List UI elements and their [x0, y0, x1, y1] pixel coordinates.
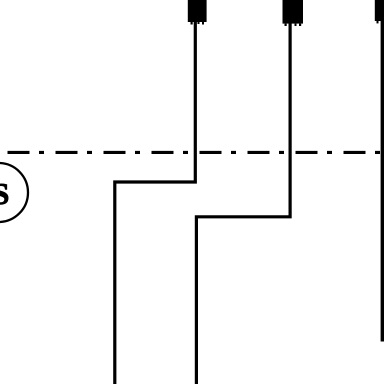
centerline (dash-dot axis)	[8, 151, 384, 154]
wire W1 (from terminal T1, steps left)	[115, 20, 196, 384]
terminal T3 (cut off at right edge)	[375, 0, 384, 23]
switch S1 circle (cut off at left edge)	[0, 163, 28, 222]
wire W2 (from terminal T2, steps left)	[196, 20, 290, 384]
terminal T1	[188, 0, 207, 25]
terminal T2	[283, 0, 304, 26]
svg-text:S: S	[0, 177, 9, 211]
switch S1 label "S"	[0, 177, 9, 211]
wire W3 (from terminal T3, straight down)	[381, 20, 384, 342]
